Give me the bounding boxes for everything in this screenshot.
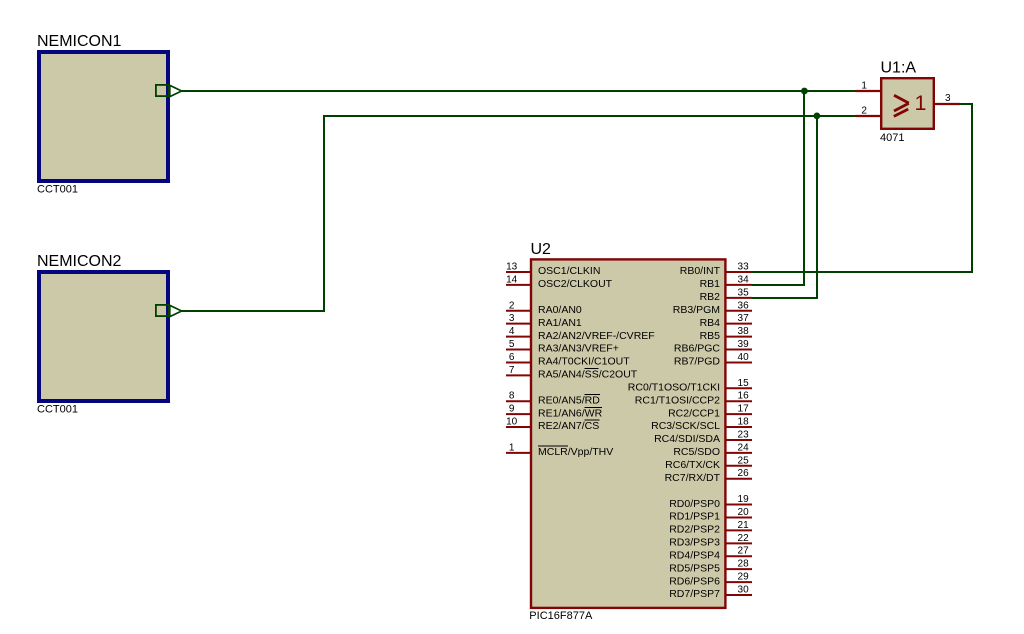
- svg-text:14: 14: [506, 274, 518, 285]
- svg-text:25: 25: [738, 455, 750, 466]
- svg-text:40: 40: [738, 352, 750, 363]
- svg-text:RA2/AN2/VREF-/CVREF: RA2/AN2/VREF-/CVREF: [538, 330, 655, 342]
- svg-text:6: 6: [509, 352, 515, 363]
- svg-text:OSC2/CLKOUT: OSC2/CLKOUT: [538, 278, 613, 290]
- svg-text:2: 2: [861, 105, 867, 116]
- svg-text:RB6/PGC: RB6/PGC: [674, 343, 721, 355]
- svg-text:NEMICON2: NEMICON2: [37, 253, 122, 270]
- svg-text:RC6/TX/CK: RC6/TX/CK: [665, 459, 720, 471]
- svg-text:RB1: RB1: [700, 278, 721, 290]
- svg-text:37: 37: [738, 313, 750, 324]
- svg-text:RB2: RB2: [700, 291, 721, 303]
- svg-text:28: 28: [738, 559, 750, 570]
- svg-text:RD4/PSP4: RD4/PSP4: [669, 549, 720, 561]
- svg-text:4: 4: [509, 326, 515, 337]
- svg-text:RD7/PSP7: RD7/PSP7: [669, 588, 720, 600]
- svg-text:15: 15: [738, 378, 750, 389]
- svg-text:RE0/AN5/RD: RE0/AN5/RD: [538, 394, 600, 406]
- svg-text:CCT001: CCT001: [37, 183, 78, 195]
- svg-text:RD2/PSP2: RD2/PSP2: [669, 524, 720, 536]
- svg-text:33: 33: [738, 262, 750, 273]
- svg-text:30: 30: [738, 585, 750, 596]
- svg-text:38: 38: [738, 326, 750, 337]
- svg-text:RE1/AN6/WR: RE1/AN6/WR: [538, 407, 603, 419]
- svg-text:9: 9: [509, 404, 515, 415]
- svg-text:17: 17: [738, 404, 750, 415]
- svg-text:RD3/PSP3: RD3/PSP3: [669, 537, 720, 549]
- svg-text:19: 19: [738, 494, 750, 505]
- svg-text:RC5/SDO: RC5/SDO: [673, 446, 720, 458]
- svg-text:RC0/T1OSO/T1CKI: RC0/T1OSO/T1CKI: [628, 381, 720, 393]
- svg-text:39: 39: [738, 339, 750, 350]
- svg-text:18: 18: [738, 417, 750, 428]
- svg-text:RC2/CCP1: RC2/CCP1: [668, 407, 720, 419]
- svg-text:7: 7: [509, 365, 515, 376]
- svg-text:3: 3: [509, 313, 515, 324]
- svg-text:24: 24: [738, 442, 750, 453]
- svg-text:RC1/T1OSI/CCP2: RC1/T1OSI/CCP2: [635, 394, 720, 406]
- svg-text:20: 20: [738, 507, 750, 518]
- svg-text:21: 21: [738, 520, 750, 531]
- svg-text:8: 8: [509, 391, 515, 402]
- svg-text:NEMICON1: NEMICON1: [37, 33, 122, 50]
- svg-text:RB5: RB5: [700, 330, 721, 342]
- svg-text:PIC16F877A: PIC16F877A: [529, 610, 593, 622]
- svg-text:1: 1: [509, 442, 515, 453]
- svg-text:RC4/SDI/SDA: RC4/SDI/SDA: [654, 433, 720, 445]
- svg-text:26: 26: [738, 468, 750, 479]
- svg-text:RA3/AN3/VREF+: RA3/AN3/VREF+: [538, 343, 619, 355]
- svg-text:RA4/T0CKI/C1OUT: RA4/T0CKI/C1OUT: [538, 356, 630, 368]
- svg-text:RB0/INT: RB0/INT: [680, 265, 721, 277]
- svg-text:RD6/PSP6: RD6/PSP6: [669, 575, 720, 587]
- svg-text:36: 36: [738, 300, 750, 311]
- svg-text:1: 1: [915, 91, 927, 115]
- svg-text:RE2/AN7/CS: RE2/AN7/CS: [538, 420, 599, 432]
- svg-text:OSC1/CLKIN: OSC1/CLKIN: [538, 265, 600, 277]
- svg-text:RC3/SCK/SCL: RC3/SCK/SCL: [651, 420, 720, 432]
- svg-text:MCLR/Vpp/THV: MCLR/Vpp/THV: [538, 446, 613, 458]
- svg-text:RC7/RX/DT: RC7/RX/DT: [665, 472, 721, 484]
- svg-text:4071: 4071: [880, 132, 904, 144]
- svg-text:10: 10: [506, 417, 518, 428]
- svg-text:13: 13: [506, 262, 518, 273]
- svg-text:23: 23: [738, 429, 750, 440]
- svg-text:29: 29: [738, 572, 750, 583]
- svg-text:27: 27: [738, 546, 750, 557]
- svg-text:3: 3: [945, 93, 951, 104]
- svg-text:34: 34: [738, 274, 750, 285]
- svg-text:RB7/PGD: RB7/PGD: [674, 356, 721, 368]
- svg-text:RA0/AN0: RA0/AN0: [538, 304, 582, 316]
- svg-text:CCT001: CCT001: [37, 403, 78, 415]
- svg-text:RA1/AN1: RA1/AN1: [538, 317, 582, 329]
- svg-text:5: 5: [509, 339, 515, 350]
- svg-text:1: 1: [861, 80, 867, 91]
- svg-text:RD5/PSP5: RD5/PSP5: [669, 562, 720, 574]
- svg-text:RD0/PSP0: RD0/PSP0: [669, 498, 720, 510]
- svg-text:RA5/AN4/SS/C2OUT: RA5/AN4/SS/C2OUT: [538, 369, 638, 381]
- svg-text:2: 2: [509, 300, 515, 311]
- svg-text:35: 35: [738, 287, 750, 298]
- svg-text:16: 16: [738, 391, 750, 402]
- svg-text:22: 22: [738, 533, 750, 544]
- svg-text:U2: U2: [531, 241, 552, 258]
- svg-text:RD1/PSP1: RD1/PSP1: [669, 511, 720, 523]
- svg-text:RB3/PGM: RB3/PGM: [673, 304, 720, 316]
- svg-text:RB4: RB4: [700, 317, 721, 329]
- svg-text:U1:A: U1:A: [881, 60, 917, 77]
